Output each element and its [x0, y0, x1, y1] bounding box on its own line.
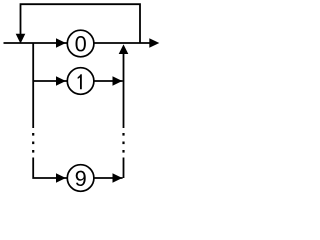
- arrow from node 1 into merge line: [113, 76, 123, 86]
- loop-back wire (right up, across top, left down): [21, 4, 141, 43]
- loop-back arrow down into entry: [16, 34, 26, 44]
- wire: merge vertical (solid upper part): [123, 53, 125, 128]
- wire: node 0 exit line: [94, 42, 157, 44]
- final output arrow: [149, 38, 159, 48]
- arrow into node 9: [56, 173, 66, 183]
- wire: row 1 branch line: [33, 80, 67, 82]
- wire: branch vertical (solid upper part): [32, 43, 34, 128]
- ellipsis dots on merge vertical: [122, 133, 124, 136]
- wire: merge vertical (solid lower part): [123, 158, 125, 179]
- wire: branch vertical (solid lower part) with corner to row 9: [33, 158, 67, 179]
- node 9 circle: [67, 165, 94, 192]
- ellipsis dots on branch vertical: [32, 133, 34, 136]
- node 9 label: [76, 171, 86, 186]
- node 1 label: [78, 74, 82, 89]
- node 0 circle: [67, 30, 94, 57]
- arrow into node 1: [56, 76, 66, 86]
- node 1 circle: [67, 68, 94, 95]
- node 0 label: [76, 36, 86, 51]
- wire: node 1 exit line: [94, 80, 122, 82]
- wire: node 9 exit line: [94, 177, 122, 179]
- arrow from node 9 into merge line: [113, 173, 123, 183]
- arrow into node 0: [56, 38, 66, 48]
- wire: main entry line: [4, 42, 68, 44]
- merge-line up arrow into main line: [119, 44, 129, 54]
